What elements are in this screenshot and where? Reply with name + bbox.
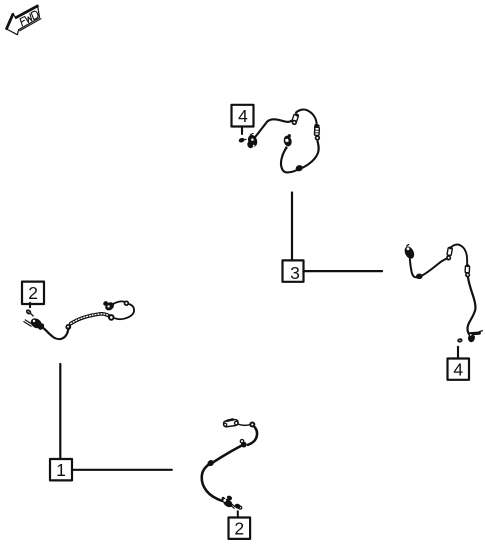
clip D1 [240,440,246,448]
callout box 1 [50,459,72,480]
harness C: left sensor cable [24,301,134,339]
leader line from box 2 [29,303,31,308]
letter W [25,14,34,23]
cable D3 [202,465,225,501]
leader line from box 3 to harness B [304,270,383,272]
sensor head A [247,133,258,148]
leader line to box 3 [291,193,293,261]
svg-text:2: 2 [28,283,38,303]
leader line to box 2 (bottom) [237,511,239,517]
clip D2 [206,459,215,467]
cable A3 loop [281,141,319,173]
cable B1 [410,259,419,277]
grommet A [314,124,320,130]
cable C1 [43,328,68,339]
corrugated tube C [71,314,109,324]
callout box 2 (bottom) [229,518,251,539]
callout box 4 (top) [232,105,254,127]
eyelet ring C [125,301,129,305]
grommet ring C [109,315,114,320]
connector D [223,419,238,427]
clip C ring [65,324,71,330]
sensor head C [24,317,45,330]
connector A1 [292,113,299,123]
bolt D [235,503,242,509]
cable B4 [468,277,476,336]
clip A [295,164,304,172]
mid connector A [283,134,293,149]
harness A: front sensor cable (top centre) [247,109,320,172]
letter D [30,10,39,19]
svg-text:2: 2 [234,519,244,539]
cable A2 [296,109,317,127]
link wire D [239,424,250,425]
harness D: bottom sensor cable [202,419,257,509]
sensor head D [222,495,234,508]
clip B [416,274,423,280]
connector C [103,301,115,311]
cable C curl [115,304,134,319]
cable C2 [114,301,125,303]
svg-text:4: 4 [238,106,248,126]
bolt under box 2 [26,309,34,316]
leader line to box 1 [59,364,61,459]
connector B2 [465,264,470,273]
eyelet D [249,422,255,428]
cable B3 [451,245,467,265]
leader line to box 4 (right) [457,347,459,359]
callout box 4 (right) [448,359,470,380]
sensor end B [468,331,482,342]
svg-text:4: 4 [453,360,463,380]
svg-text:3: 3 [290,263,300,283]
harness B: right sensor cable [403,244,482,343]
connector B1 [447,246,453,256]
letter F [19,17,27,26]
leader line from box 4 [241,127,243,135]
cable B2 [422,259,446,276]
svg-text:1: 1 [56,460,66,480]
FWD direction arrow [2,2,45,38]
cable A1 [255,119,292,136]
callout box 3 [283,260,304,283]
leader line from box 1 to harness D [72,469,172,471]
callout box 2 (left) [22,282,44,304]
bolt B [457,338,463,343]
cable D2 [213,446,241,462]
cable D1 [248,427,257,445]
bolt under box 4 [239,138,246,143]
sensor head B [403,244,415,259]
connector A2 [314,127,319,135]
